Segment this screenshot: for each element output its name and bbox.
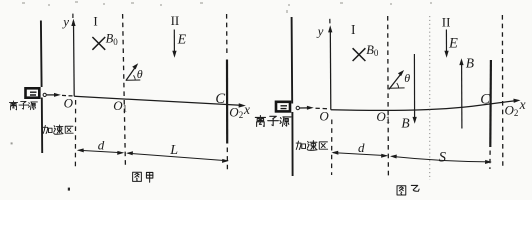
right plate (solid) <box>226 60 228 144</box>
d measure arrow <box>79 150 123 152</box>
ion source box (right) <box>276 102 290 112</box>
theta arc <box>134 75 136 80</box>
svg-text:x: x <box>519 97 526 112</box>
y-axis <box>73 21 76 96</box>
svg-text:d: d <box>98 137 105 152</box>
right plate (dashed bottom) <box>226 148 228 171</box>
svg-text:II: II <box>442 14 451 29</box>
x-axis <box>74 96 240 105</box>
svg-text:d: d <box>358 140 365 155</box>
left accelerating plate <box>41 21 42 154</box>
svg-text:L: L <box>169 143 178 158</box>
svg-text:C: C <box>215 91 225 107</box>
svg-text:O: O <box>319 109 329 124</box>
svg-text:E: E <box>448 35 458 51</box>
stray dot bottom <box>68 188 70 191</box>
dash above y arrow (right) <box>329 19 331 24</box>
left accelerating plate (right fig) <box>292 17 293 176</box>
svg-text:x: x <box>243 102 250 117</box>
entry arrow (right) <box>300 107 309 109</box>
dash above y arrow <box>72 14 74 18</box>
离子源 text (right) <box>255 116 291 127</box>
theta reference line (right) <box>389 87 404 89</box>
dashes before O <box>62 94 73 97</box>
svg-text:B: B <box>466 55 474 70</box>
theta arc (right) <box>397 83 399 88</box>
B up arrow <box>461 64 463 129</box>
dashed O2 line (right) <box>501 15 503 168</box>
dashed line below O <box>74 100 76 168</box>
svg-text:S: S <box>439 150 447 166</box>
dashed boundary I/II <box>123 14 126 165</box>
x B0 field symbol (right) <box>353 48 366 61</box>
svg-text:II: II <box>171 13 180 28</box>
theta reference line <box>126 79 140 81</box>
图乙 caption <box>397 185 419 195</box>
S measure arrow (right) <box>392 156 491 162</box>
dashes before O (right) <box>316 107 328 110</box>
ion exit circle <box>43 93 46 96</box>
E arrow <box>173 30 175 53</box>
ion source box (left) <box>26 88 40 97</box>
right plate dashes below <box>489 151 491 170</box>
E arrow (right) <box>445 30 447 53</box>
加速区 text (right) <box>296 141 327 151</box>
svg-text:θ: θ <box>404 71 410 85</box>
svg-text:B: B <box>401 116 409 131</box>
entry arrow <box>47 94 56 96</box>
svg-text:I: I <box>93 13 97 28</box>
right plate (solid, right fig) <box>489 60 492 147</box>
right plate (dashed top) <box>226 14 228 57</box>
svg-text:E: E <box>177 32 187 47</box>
dotted separator line <box>429 16 431 180</box>
d measure arrow (right) <box>333 153 387 156</box>
y-axis (right) <box>329 28 332 110</box>
ion exit circle (right) <box>296 106 299 109</box>
svg-text:y: y <box>61 14 69 29</box>
加速区 text (left) <box>43 125 73 134</box>
L measure arrow <box>128 153 228 160</box>
离子源 text (left) <box>9 101 37 110</box>
svg-text:I: I <box>351 22 356 37</box>
dashed boundary at O1 (right) <box>387 16 390 179</box>
svg-text:θ: θ <box>137 67 143 81</box>
x B0 field symbol <box>92 37 105 50</box>
B down arrow <box>413 54 415 119</box>
x-axis curve (right) <box>331 101 516 111</box>
svg-text:C: C <box>480 91 490 107</box>
图甲 caption <box>133 172 153 182</box>
dashed line below O (right) <box>331 120 333 176</box>
scan noise specks top <box>22 1 432 13</box>
svg-text:O: O <box>64 96 74 111</box>
svg-text:y: y <box>316 23 324 38</box>
theta arrow (left) <box>126 67 136 81</box>
theta arrow (right) <box>389 74 401 90</box>
